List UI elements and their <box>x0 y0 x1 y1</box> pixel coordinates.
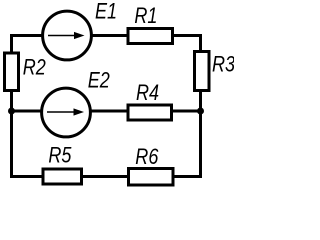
svg-text:R1: R1 <box>134 4 157 28</box>
svg-text:R5: R5 <box>48 144 72 168</box>
junction node left <box>8 108 15 115</box>
arrow of E1 <box>48 32 85 39</box>
wire outer loop (top rail, right vertical, bottom rail, left vertical) <box>12 36 201 177</box>
voltage source E1 <box>43 11 92 60</box>
junction node right <box>197 108 204 115</box>
resistor R1 <box>128 29 173 44</box>
svg-text:E2: E2 <box>88 69 110 93</box>
resistor R2 <box>5 53 19 91</box>
resistor R5 <box>43 169 82 184</box>
svg-text:R4: R4 <box>136 82 159 106</box>
wire middle rail <box>12 110 201 113</box>
svg-text:R6: R6 <box>135 145 159 169</box>
svg-text:R3: R3 <box>212 53 234 77</box>
svg-text:E1: E1 <box>95 0 117 24</box>
resistor R3 <box>195 52 210 91</box>
resistor R4 <box>128 105 172 120</box>
voltage source E2 <box>42 88 91 137</box>
resistor R6 <box>129 169 174 186</box>
arrow of E2 <box>47 108 84 115</box>
svg-text:R2: R2 <box>23 56 46 80</box>
